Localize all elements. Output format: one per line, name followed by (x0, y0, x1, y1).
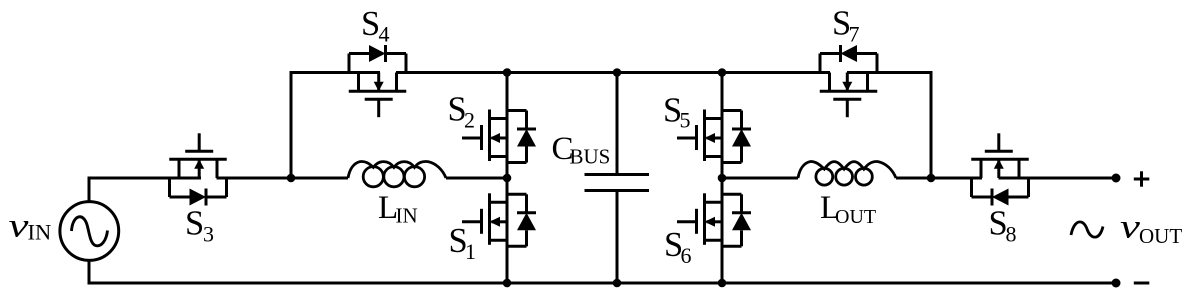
label S3 (185, 205, 214, 247)
label S7 (832, 5, 860, 47)
label LOUT (820, 190, 876, 228)
wire bridge1 column (506, 73, 509, 284)
wire top rail bridge1 to CBUS (507, 71, 617, 74)
svg-text:S: S (185, 205, 204, 243)
wire node B to S8 (931, 177, 982, 180)
transistor S8 (971, 133, 1029, 205)
transistor S4 (349, 45, 407, 117)
terminal + (output) (1112, 174, 1121, 183)
wire S8 to output (999, 177, 1117, 180)
junction bridge2 midpoint (718, 174, 727, 183)
label CBUS (552, 131, 611, 169)
svg-text:S: S (361, 5, 380, 43)
junction bridge2 top (718, 68, 727, 77)
wire bridge2 column (721, 73, 724, 284)
junction bridge1 bottom (503, 279, 512, 288)
label S8 (989, 205, 1017, 247)
label LIN (378, 190, 418, 228)
transistor S1 (462, 193, 536, 246)
svg-text:2: 2 (464, 108, 475, 133)
transistor S5 (677, 110, 751, 163)
svg-text:v: v (1120, 208, 1140, 246)
svg-text:IN: IN (28, 220, 52, 245)
label S5 (663, 92, 691, 133)
svg-text:8: 8 (1006, 222, 1017, 247)
wire LIN to bridge1 midpoint (446, 177, 507, 180)
wire S7 to node B (847, 71, 933, 74)
wire vIN bottom (88, 259, 91, 283)
svg-text:OUT: OUT (835, 206, 876, 228)
label S4 (361, 5, 390, 47)
svg-text:3: 3 (203, 222, 214, 247)
inductor LOUT (798, 162, 896, 186)
transistor S7 (820, 45, 878, 117)
node A junction (287, 174, 296, 183)
junction bridge2 bottom (718, 279, 727, 288)
svg-text:OUT: OUT (1139, 224, 1182, 248)
junction bridge1 midpoint (503, 174, 512, 183)
node B junction (927, 174, 936, 183)
wire S3 to node A (217, 177, 293, 180)
label vIN (9, 207, 52, 245)
label vOUT (1120, 208, 1182, 248)
label S6 (664, 226, 692, 268)
svg-text:7: 7 (849, 22, 860, 47)
wire S4 to half-bridge (396, 71, 507, 74)
label S1 (449, 222, 477, 264)
junction CBUS top (613, 68, 622, 77)
bottom rail (88, 282, 1117, 285)
ac voltage source vIN (60, 202, 119, 261)
wire top rail bridge2 to S7 (722, 71, 830, 74)
svg-text:1: 1 (465, 239, 476, 264)
svg-text:4: 4 (379, 22, 390, 47)
transistor S2 (462, 110, 536, 163)
svg-text:v: v (9, 207, 29, 245)
label S2 (448, 91, 476, 133)
capacitor CBUS (585, 73, 650, 284)
wire bridge2 midpoint to LOUT (722, 177, 798, 180)
wire node A up (290, 71, 293, 178)
wire node A to LIN (291, 177, 348, 180)
ac symbol vOUT (1071, 222, 1103, 237)
junction CBUS bottom (613, 279, 622, 288)
wire vIN top (88, 177, 91, 203)
svg-text:IN: IN (396, 204, 418, 228)
inductor LIN (348, 161, 446, 186)
svg-text:6: 6 (681, 243, 692, 268)
svg-text:BUS: BUS (570, 145, 611, 169)
wire LOUT to node B (896, 177, 931, 180)
transistor S3 (169, 133, 227, 205)
svg-text:5: 5 (680, 108, 691, 133)
transistor S6 (677, 193, 751, 246)
wire top rail CBUS to bridge2 (617, 71, 722, 74)
terminal - (output) (1112, 279, 1121, 288)
junction bridge1 top (503, 68, 512, 77)
